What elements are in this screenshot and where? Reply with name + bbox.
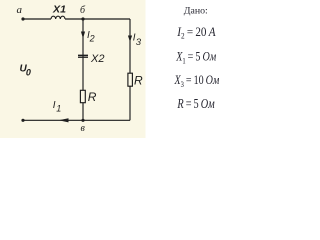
label I1 <box>53 100 62 113</box>
resistor R (middle branch) <box>80 90 85 102</box>
resistor R (right branch) <box>128 73 132 86</box>
source label U0 <box>20 63 31 77</box>
inductor X1 <box>51 16 65 19</box>
svg-text:Дано:: Дано: <box>184 7 208 17</box>
svg-text:R = 5 Ом: R = 5 Ом <box>177 96 216 111</box>
wire middle branch <box>82 19 84 120</box>
node a label <box>17 4 23 16</box>
node v label <box>81 123 86 134</box>
svg-text:X1: X1 <box>52 5 67 16</box>
label I2 <box>87 30 95 44</box>
node b (junction dot) <box>81 17 84 20</box>
svg-text:2: 2 <box>89 34 95 44</box>
svg-text:R: R <box>134 73 143 87</box>
svg-text:a: a <box>17 4 23 16</box>
label I3 <box>133 33 142 48</box>
svg-text:R: R <box>88 90 97 104</box>
wire bottom <box>23 119 130 121</box>
given line I2 = 20 A <box>176 25 216 41</box>
svg-text:X1 = 5 Ом: X1 = 5 Ом <box>175 50 216 66</box>
label R (right) <box>134 73 143 87</box>
current arrow I2 <box>81 32 85 39</box>
wire right branch <box>129 19 131 120</box>
svg-text:X2: X2 <box>90 53 104 65</box>
terminal bottom-left <box>21 119 24 122</box>
circuit background <box>0 0 146 138</box>
node v (junction dot) <box>81 119 84 122</box>
label X1 <box>52 5 67 16</box>
label R (middle) <box>88 90 97 104</box>
given line R = 5 Om <box>177 96 216 111</box>
wire top (a to b) <box>23 18 51 20</box>
svg-text:в: в <box>81 123 86 134</box>
given-data heading <box>184 7 208 17</box>
label X2 <box>90 53 104 65</box>
svg-text:3: 3 <box>136 37 142 48</box>
given line X1 = 5 Om <box>175 50 216 66</box>
node b label <box>80 5 86 16</box>
capacitor X2 <box>78 55 88 57</box>
wire top (coil to corner) <box>65 18 130 20</box>
terminal a <box>21 17 24 20</box>
given line X3 = 10 Om <box>174 73 220 89</box>
svg-text:0: 0 <box>26 68 31 78</box>
svg-text:X3 = 10 Ом: X3 = 10 Ом <box>174 73 220 89</box>
svg-text:I2 = 20 А: I2 = 20 А <box>176 25 216 41</box>
current arrow I1 <box>59 118 69 122</box>
svg-text:1: 1 <box>56 103 61 113</box>
current arrow I3 <box>128 36 132 43</box>
